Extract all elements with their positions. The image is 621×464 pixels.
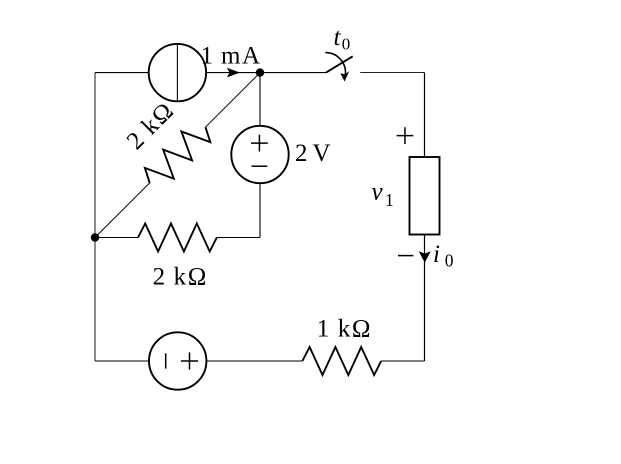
wire: switch to top-right corner xyxy=(360,72,424,74)
label: v1 xyxy=(372,179,394,211)
label: i0 xyxy=(433,241,454,271)
svg-text:0: 0 xyxy=(445,251,454,271)
wire: right rail lower (box to bottom corner) xyxy=(424,235,426,362)
wire: R3 to bottom-right corner xyxy=(381,360,424,362)
horizontal resistor R2 (2 kOhm): left lead xyxy=(95,237,138,239)
generic element box (v1) xyxy=(410,157,440,235)
current direction arrow for I1 xyxy=(227,68,240,78)
wire: top node down to 2V source xyxy=(259,73,261,126)
svg-text:i: i xyxy=(433,241,440,268)
svg-text:t: t xyxy=(334,24,342,51)
junction dot at left mid node xyxy=(91,233,99,241)
switch SW (closing at t0): blade xyxy=(326,56,353,72)
wire: top-left segment to current source xyxy=(95,72,149,74)
label: - polarity of v1 xyxy=(398,255,413,257)
voltage source V1 (2 V) xyxy=(231,126,288,183)
junction dot at top node xyxy=(256,68,264,76)
svg-text:2 V: 2 V xyxy=(295,140,331,167)
wire: R2 right lead xyxy=(217,237,260,239)
wire: 2V source to lower corner xyxy=(259,183,261,237)
svg-text:0: 0 xyxy=(342,35,351,54)
current arrow i0 xyxy=(419,251,431,262)
switch SW closing arc arrow xyxy=(325,53,349,82)
label: + polarity of v1 xyxy=(397,127,414,144)
svg-text:1: 1 xyxy=(385,190,394,210)
wire: V2 to resistor R3 xyxy=(206,360,302,362)
resistor R3 (1 kOhm) zigzag xyxy=(302,347,381,375)
svg-text:1 kΩ: 1 kΩ xyxy=(317,316,372,343)
svg-text:2 kΩ: 2 kΩ xyxy=(122,97,180,155)
wire: left rail xyxy=(94,73,96,361)
current source I1 (1 mA) xyxy=(149,44,206,101)
svg-text:v: v xyxy=(372,179,384,206)
wire: node dot to switch xyxy=(260,72,326,74)
diagonal resistor R1 (2 kOhm) xyxy=(58,35,270,247)
label: t0 xyxy=(334,24,351,54)
resistor R2 zigzag xyxy=(138,224,217,252)
wire: right rail upper (corner to box) xyxy=(424,73,426,157)
svg-text:1 mA: 1 mA xyxy=(201,42,262,69)
svg-text:2 kΩ: 2 kΩ xyxy=(153,263,208,290)
wire: current source right lead to node dot xyxy=(206,72,260,74)
voltage source V2 (bottom) xyxy=(149,332,206,389)
wire: bottom-left rail corner segment xyxy=(95,360,149,362)
